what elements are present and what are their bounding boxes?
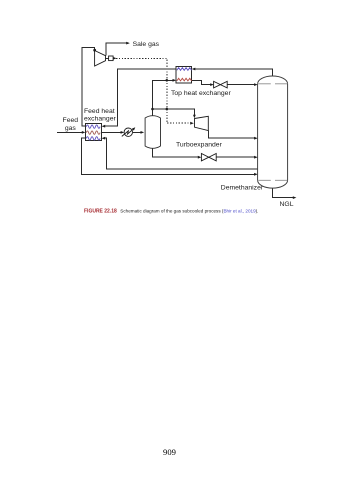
svg-text:gas: gas xyxy=(65,125,77,132)
svg-text:NGL: NGL xyxy=(280,201,294,208)
svg-text:Feed: Feed xyxy=(63,117,79,124)
svg-text:Sale gas: Sale gas xyxy=(133,41,160,48)
svg-text:exchanger: exchanger xyxy=(84,115,116,122)
svg-text:Turboexpander: Turboexpander xyxy=(176,142,223,149)
svg-text:Top heat exchanger: Top heat exchanger xyxy=(171,90,231,97)
svg-text:909: 909 xyxy=(163,447,176,457)
svg-text:Feed heat: Feed heat xyxy=(84,108,115,115)
svg-text:Demethanizer: Demethanizer xyxy=(221,185,264,192)
